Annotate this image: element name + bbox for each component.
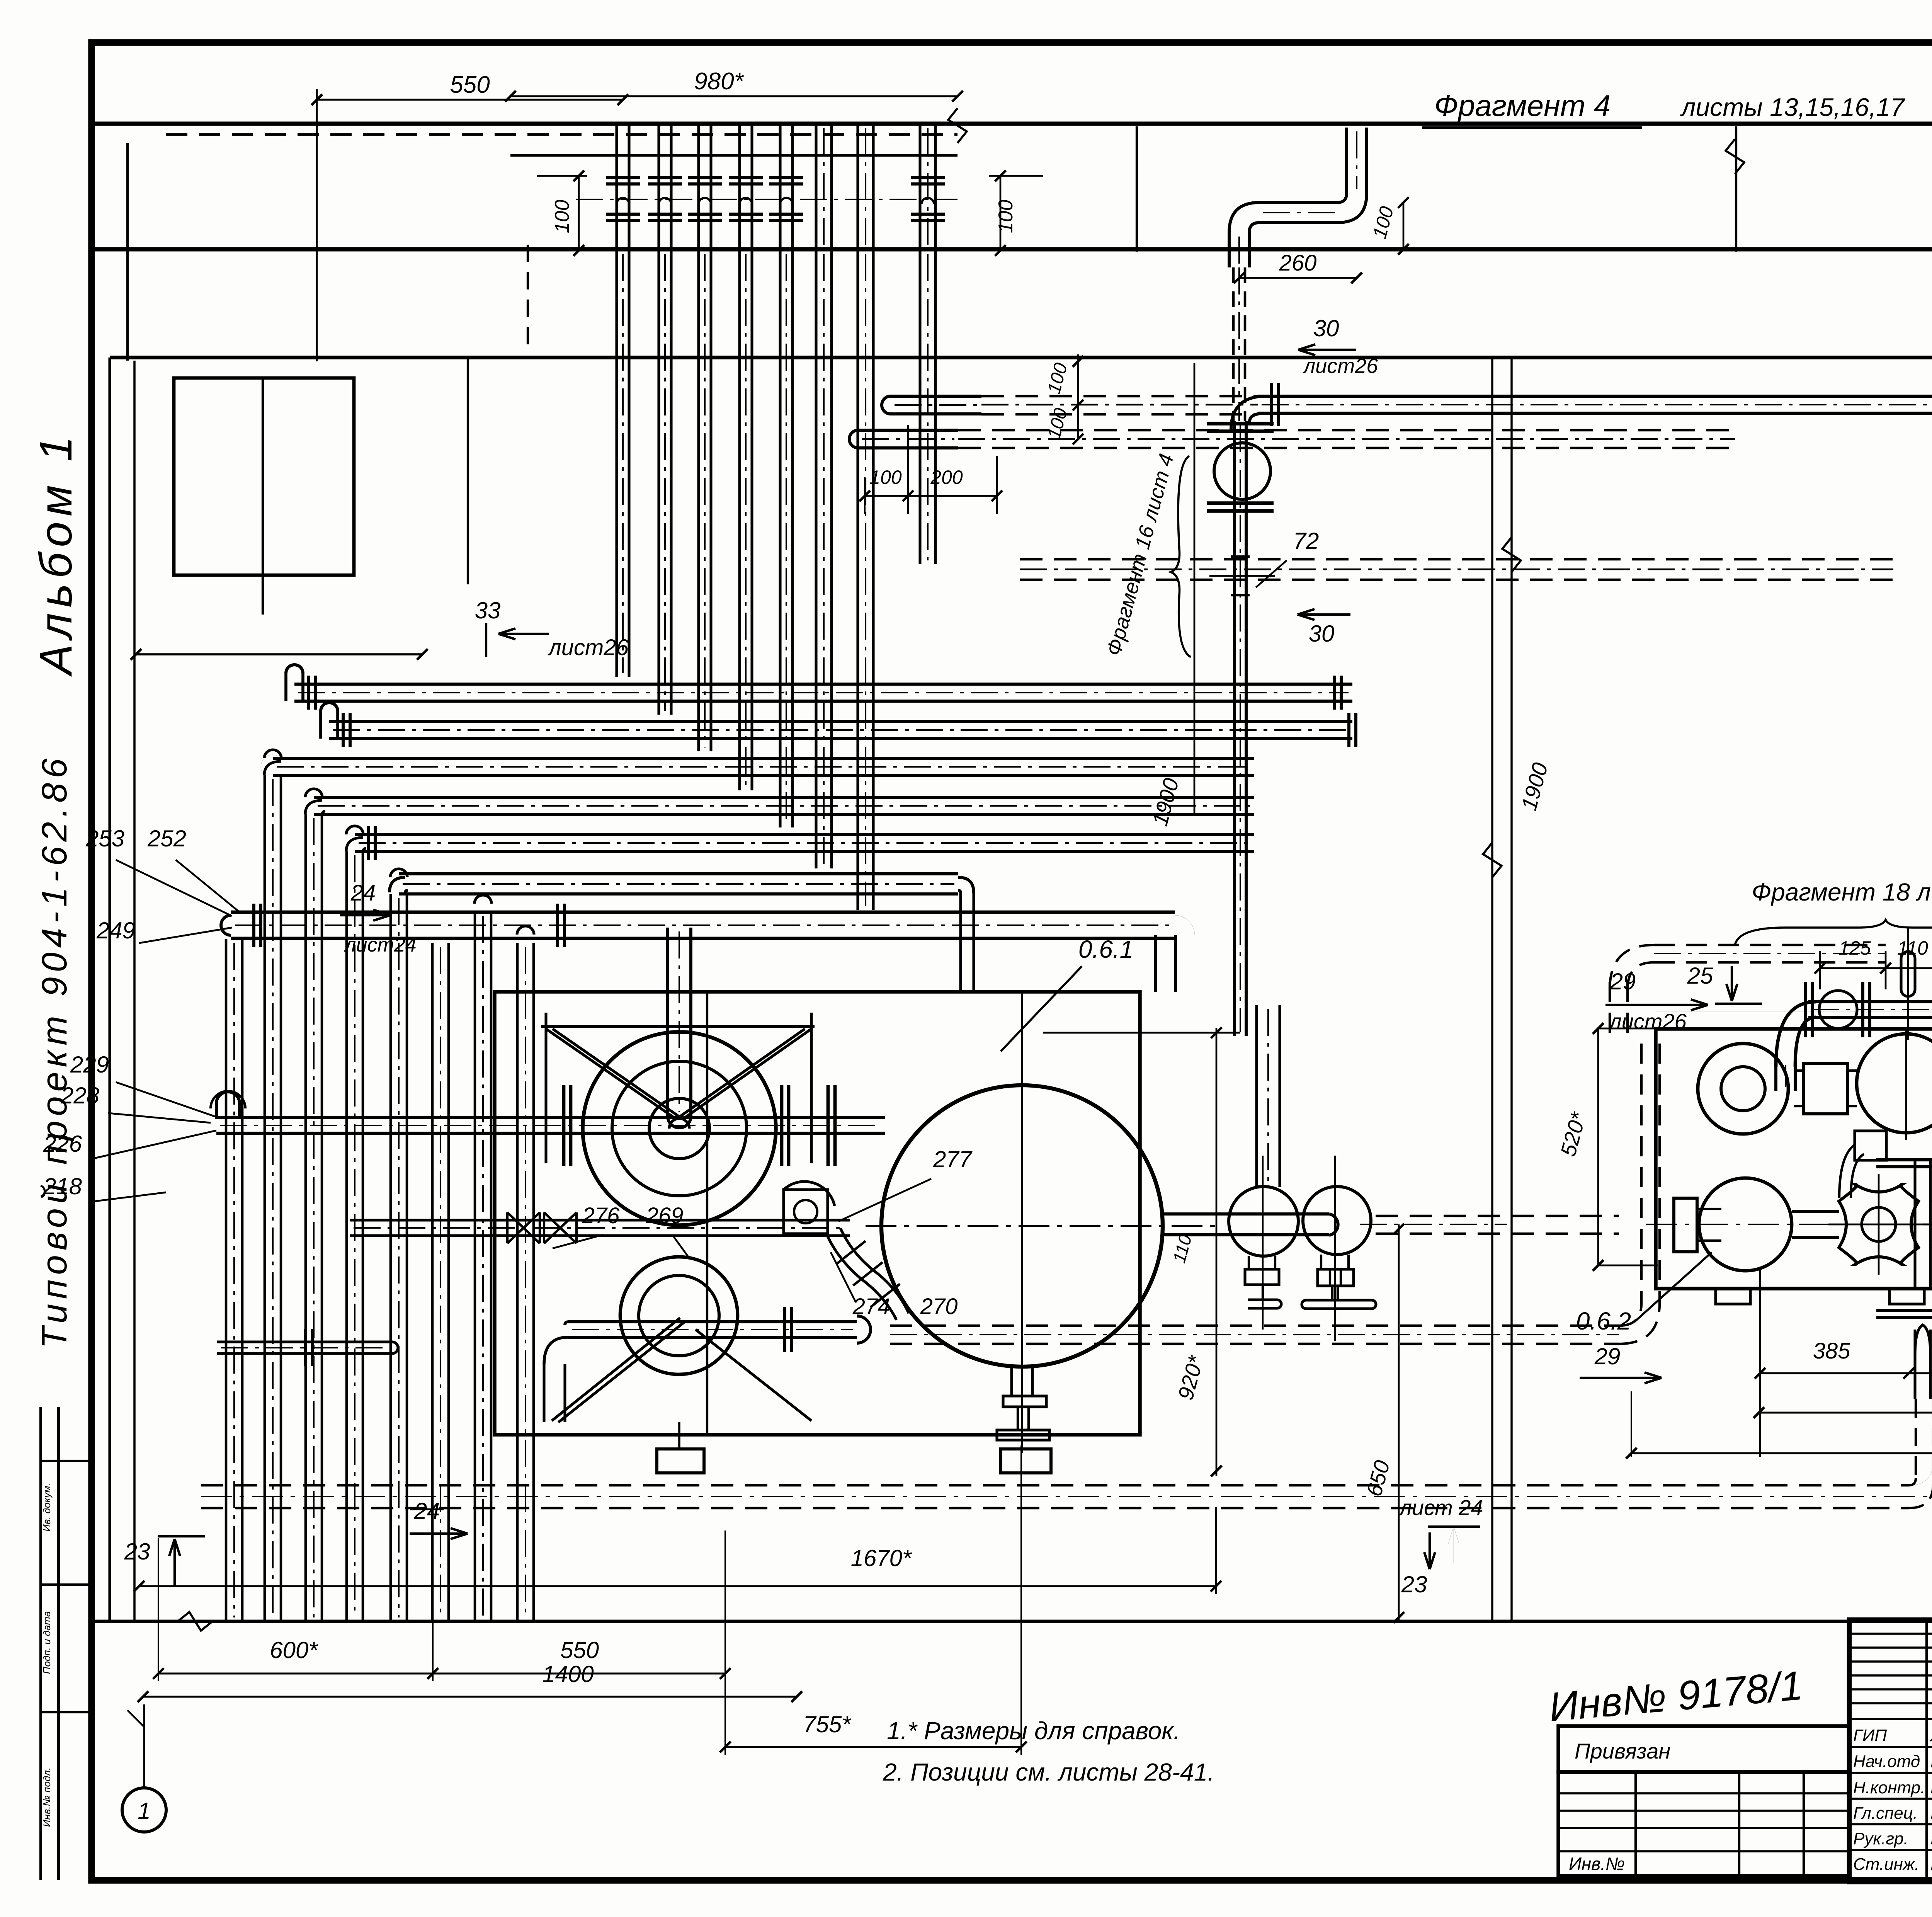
pipe run A [294,683,1352,686]
svg-text:Преснов: Преснов [1930,1803,1932,1823]
dashed run DL3 [1020,558,1893,561]
dashed pair right of valves [1376,1215,1619,1217]
riser cap 226 [215,1103,218,1119]
svg-text:Инв.№: Инв.№ [1569,1854,1625,1874]
segment marks 72 [1231,555,1250,558]
big pipe BH [1258,395,1932,398]
coupling square [1803,1063,1847,1114]
svg-text:Новицкая: Новицкая [1930,1777,1932,1797]
extension line 1900 [1194,363,1196,815]
central riser pipe [1233,421,1236,1036]
compressor flywheel [583,1032,776,1225]
wall dashed pipe [166,133,957,136]
svg-text:лист 24: лист 24 [1398,1495,1483,1520]
svg-text:23: 23 [1401,1571,1427,1597]
flywheel feed pipe [666,928,669,1116]
svg-text:Инв.№ подл.: Инв.№ подл. [41,1767,53,1827]
pipe BH left capped segment [891,395,981,398]
scope line 33 [136,653,422,655]
dim 600* [158,1672,433,1674]
riser with flange down [1913,1158,1916,1289]
central riser dashed part [1232,267,1235,421]
elbow domes on bundle tops [264,750,281,758]
valve A stem and handle [1248,1256,1250,1269]
svg-text:Альбом 1: Альбом 1 [31,431,82,677]
left stamp strip [57,1407,60,1880]
svg-text:Воеводина: Воеводина [1930,1854,1932,1874]
svg-text:550: 550 [560,1637,599,1663]
elbow from donut up [1776,1002,1816,1067]
dim 260 [1239,277,1357,279]
donut feed vertical [1774,1061,1777,1091]
staff table rows [1849,1633,1932,1635]
wall line bottom [92,247,1932,251]
stadium riser [1901,952,1915,996]
manifold flanges and loops [606,176,640,179]
donut pump 0.6.2 [1698,1044,1788,1134]
dim 1400 [143,1696,797,1697]
pipe between circles [1792,1210,1839,1213]
valve circle A right of vessel [1229,1187,1298,1256]
elbow top right of jog [1337,193,1347,203]
svg-text:125: 125 [1838,937,1871,959]
dim 100 right of array [1000,176,1002,250]
pipe P2 [350,1219,850,1221]
riser from G [1154,935,1157,992]
left wall line down [108,358,111,1621]
unit 0.6.1 box [495,992,1140,1435]
svg-text:229: 229 [70,1052,109,1078]
elbow jog left down [1229,203,1259,233]
pipe drop from wall [1345,128,1348,193]
pipe run G lист24 main [231,911,1175,914]
gate valve 1 [1839,1185,1918,1264]
svg-text:226: 226 [43,1131,82,1157]
svg-text:лист26: лист26 [1303,354,1379,378]
svg-text:1.* Размеры для справок.: 1.* Размеры для справок. [887,1717,1180,1745]
svg-text:218: 218 [43,1173,82,1199]
svg-text:249: 249 [96,918,135,943]
pipe DL2 left capped segment [858,429,958,432]
svg-text:листы 13,15,16,17: листы 13,15,16,17 [1680,93,1905,121]
svg-text:Нач.отд: Нач.отд [1853,1752,1920,1771]
svg-text:270: 270 [920,1294,958,1319]
room rectangle [174,378,354,575]
wall break verticals [1136,126,1138,252]
upper horizontal jog [1259,201,1339,204]
section lines [1491,358,1493,1621]
dashed riser to D3 [1915,1399,1917,1484]
svg-text:260: 260 [1279,250,1317,276]
dim 755* [725,1746,1021,1748]
svg-text:228: 228 [60,1083,100,1108]
second wall line [110,356,1932,359]
extension lines bottom [158,1538,159,1681]
svg-text:100: 100 [995,200,1017,233]
привязан box [1558,1726,1849,1772]
svg-text:755*: 755* [803,1711,851,1737]
svg-text:0.6.2: 0.6.2 [1576,1307,1631,1335]
pipe run C [273,757,1254,760]
diag hose 274 [827,1235,896,1320]
dim 650 [1398,1224,1400,1621]
unit 0.6.2 box [1656,1029,1932,1289]
svg-text:276: 276 [582,1203,620,1228]
dim 100 left of array [578,176,580,250]
dashed run D2 [1654,944,1886,947]
svg-text:Н.контр.: Н.контр. [1853,1778,1925,1797]
pump lower [620,1257,738,1374]
lower circle 0.6.2 [1699,1178,1792,1271]
svg-text:980*: 980* [694,68,744,95]
U cap in valve B [1329,1214,1338,1235]
small table [1558,1772,1849,1876]
vessel foot [1001,1449,1051,1473]
label 30 arrow lower [1298,613,1350,616]
manifold centerline [576,199,957,200]
svg-text:Ст.инж.: Ст.инж. [1853,1855,1919,1874]
svg-text:274: 274 [852,1294,890,1319]
dim 550 top-left [317,99,623,100]
svg-text:0.6.1: 0.6.1 [1078,935,1133,963]
svg-text:Ив. докум.: Ив. докум. [41,1483,53,1532]
dim 520* [1597,1028,1599,1265]
valves on P2 [507,1212,540,1243]
svg-text:33: 33 [475,598,501,623]
pipe run B [329,720,1352,723]
flange on central pipe [1207,422,1274,426]
inner corner line [126,143,129,361]
pipe P3 [568,1320,857,1323]
truss frame [541,1025,815,1028]
0.6.2 feet [1716,1289,1750,1304]
svg-text:Фрагмент 4: Фрагмент 4 [1434,89,1611,123]
central riser solid upper [1228,233,1231,267]
svg-text:385: 385 [1813,1338,1851,1364]
pipe run E [355,833,1254,836]
dim 550 bottom [433,1672,725,1674]
svg-text:550: 550 [450,72,490,98]
svg-text:200: 200 [930,466,963,488]
svg-text:24: 24 [414,1498,440,1524]
svg-text:1400: 1400 [542,1661,594,1687]
reference line x1211 [467,359,469,584]
svg-text:30: 30 [1309,621,1335,647]
valve on top pipe [1819,991,1857,1028]
dim 1670* [139,1585,1216,1587]
ground line [92,1620,1932,1623]
svg-text:Коган: Коган [1930,1751,1932,1771]
elbow G down [1175,915,1195,935]
pipe run F [399,872,958,875]
valve B stem and handle [1320,1255,1322,1269]
label 29 arrow right [1580,1377,1662,1379]
pump foot left [657,1449,704,1473]
staff table columns [1925,1620,1928,1882]
svg-text:ГИП: ГИП [1853,1726,1887,1745]
dashed elbow 29 [1610,945,1654,989]
valve ball on central pipe [1214,443,1270,471]
D1 riser dashed [1619,1303,1641,1326]
svg-text:Фрагмент 18 лист 48: Фрагмент 18 лист 48 [1752,878,1932,906]
wall inner line [510,154,957,157]
svg-text:25: 25 [1687,963,1713,989]
svg-text:23: 23 [124,1539,150,1565]
svg-text:Привязан: Привязан [1575,1739,1670,1763]
array pipes continue below wall [615,250,618,677]
小 277 blower [784,1190,828,1234]
svg-text:72: 72 [1293,528,1319,554]
dashed riser 29 vertical [1609,982,1611,1044]
elbow central pipe to BH [1231,396,1266,430]
dashed wall connector [527,245,529,354]
top manifold pipe array [615,124,618,249]
svg-text:100: 100 [551,200,573,233]
thin elbow pipe [1839,1145,1855,1198]
break mark on wall [948,108,967,143]
dashed run DL2 [958,429,1735,432]
svg-text:Типовой проект 904-1-62.86: Типовой проект 904-1-62.86 [35,754,74,1349]
svg-text:600*: 600* [270,1637,318,1663]
dims 100 200 near caps [865,495,997,497]
dashed run D1 [890,1325,1619,1327]
svg-text:269: 269 [646,1203,684,1228]
pipe y3487 with cap [217,1340,392,1343]
svg-text:277: 277 [933,1146,973,1172]
vessel 0.6.1 [881,1085,1163,1367]
svg-text:29: 29 [1594,1343,1621,1369]
pipe run D [314,796,1254,799]
svg-text:30: 30 [1313,315,1339,341]
pipe to valves right of vessel [1163,1212,1329,1216]
left bundle risers [225,939,228,1621]
big circle 0.6.2 [1857,1034,1932,1133]
svg-text:2. Позиции см. листы 28-41.: 2. Позиции см. листы 28-41. [883,1758,1214,1786]
svg-text:1: 1 [138,1798,150,1824]
svg-text:1670*: 1670* [851,1545,912,1571]
dashed run DL1 [981,395,1258,398]
bullet cap riser [1913,1330,1916,1399]
svg-text:100: 100 [869,466,902,488]
dim 980* [510,95,957,97]
svg-text:252: 252 [147,826,186,851]
wall line top [92,121,1932,126]
D3 curves up right [1909,1399,1932,1485]
fragment 16 brace [1171,456,1191,657]
svg-text:Григорьян: Григорьян [1930,1828,1932,1848]
axis circle 1 [122,1788,166,1832]
svg-text:лист26: лист26 [548,635,629,660]
svg-text:Подп. и дата: Подп. и дата [41,1611,53,1674]
riser pair above valve A [1255,1005,1258,1187]
dim 920* [1216,1028,1218,1476]
truss lower V [552,1318,680,1421]
room split line [262,378,264,615]
vessel bottom nozzle [1010,1367,1013,1396]
main pipe P1 [216,1116,885,1119]
0.6.2 top pipe [1808,1000,1932,1003]
svg-text:253: 253 [85,826,124,851]
title block outer [1849,1620,1932,1882]
svg-text:Гл.спец.: Гл.спец. [1853,1804,1918,1823]
dashed run D3 [201,1484,1909,1487]
dims 100 100 stacked right [1077,354,1079,439]
valve circle B right of vessel [1303,1187,1371,1255]
svg-text:Рук.гр.: Рук.гр. [1853,1829,1908,1848]
riser from F down [958,877,974,893]
